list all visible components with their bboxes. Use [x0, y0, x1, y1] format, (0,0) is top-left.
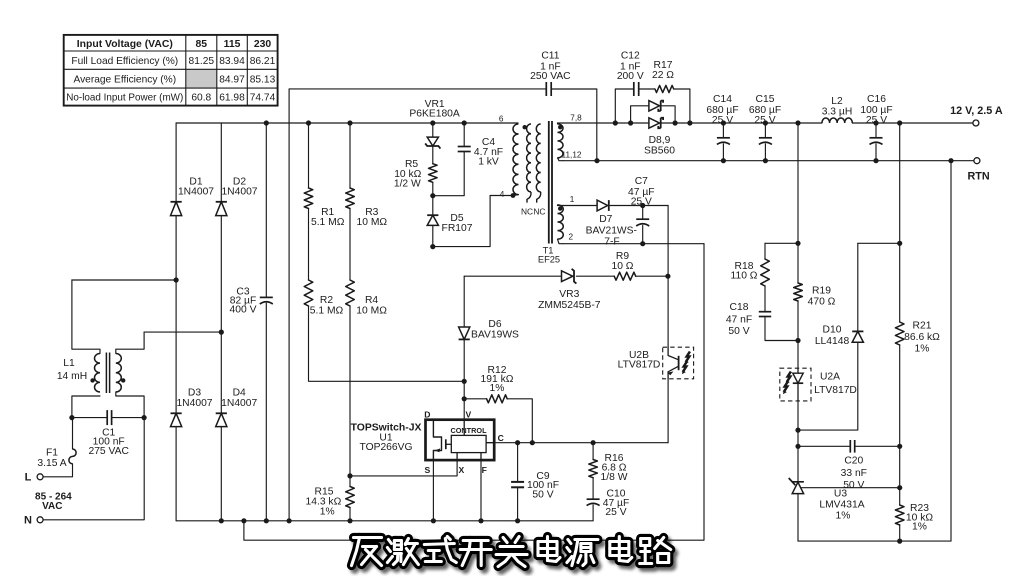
- resistor R15 14.3k: [306, 476, 355, 521]
- wire X pin: [350, 460, 457, 476]
- resistor R1 5.1M: [304, 123, 345, 280]
- svg-text:R2: R2: [320, 295, 333, 306]
- svg-text:7,8: 7,8: [570, 114, 582, 123]
- svg-text:400 V: 400 V: [230, 304, 257, 315]
- junction R12 left: [462, 396, 467, 401]
- junction D4 bus: [219, 518, 224, 523]
- svg-text:250 VAC: 250 VAC: [530, 71, 571, 82]
- resistor R4 10M: [346, 280, 387, 476]
- junction R21 top: [897, 120, 902, 125]
- capacitor C7: [628, 176, 655, 244]
- junction C11 RTN: [594, 158, 599, 163]
- svg-text:74.74: 74.74: [250, 92, 276, 103]
- svg-text:86.6 kΩ: 86.6 kΩ: [904, 332, 940, 343]
- terminal RTN: [967, 158, 989, 183]
- junction R12 right: [530, 440, 535, 445]
- svg-text:86.21: 86.21: [250, 56, 276, 67]
- svg-text:83.94: 83.94: [219, 56, 245, 67]
- svg-text:D3: D3: [188, 388, 201, 399]
- capacitor C9: [511, 443, 559, 521]
- svg-text:LL4148: LL4148: [815, 336, 850, 347]
- svg-text:1%: 1%: [320, 507, 335, 518]
- zener VR3 ZMM5245B-7: [538, 269, 601, 311]
- svg-text:47 nF: 47 nF: [726, 314, 752, 325]
- terminal 12V: [950, 105, 1003, 126]
- wire AC2 node: [144, 331, 221, 333]
- junction R23 bottom: [897, 539, 902, 544]
- svg-text:LMV431A: LMV431A: [819, 500, 864, 511]
- terminal N: [24, 515, 43, 527]
- title 反激式开关电源电路: [352, 537, 674, 571]
- transformer T1 primary winding: [513, 123, 519, 196]
- svg-text:C18: C18: [730, 302, 749, 313]
- svg-text:1%: 1%: [912, 522, 927, 533]
- svg-text:10 Ω: 10 Ω: [611, 261, 633, 272]
- svg-text:D8,9: D8,9: [649, 135, 671, 146]
- svg-text:C12: C12: [621, 51, 640, 62]
- svg-text:R1: R1: [321, 207, 334, 218]
- svg-text:1N4007: 1N4007: [178, 186, 214, 197]
- diode D5 FR107: [427, 196, 473, 247]
- junction R3 top: [347, 120, 352, 125]
- svg-text:1%: 1%: [836, 511, 851, 522]
- junction S bus: [431, 518, 436, 523]
- diode D2 1N4007: [216, 123, 258, 332]
- junction C16 top: [873, 120, 878, 125]
- svg-text:Input Voltage (VAC): Input Voltage (VAC): [77, 39, 173, 50]
- svg-text:L1: L1: [63, 358, 75, 369]
- resistor R9 10: [576, 251, 668, 280]
- wire AC1 node: [72, 279, 176, 281]
- junction RTN drop: [948, 158, 953, 163]
- svg-text:R21: R21: [913, 321, 932, 332]
- T1 core: [549, 121, 552, 244]
- svg-text:X: X: [459, 465, 465, 475]
- diode D7 BAV21WS-7-F: [563, 200, 668, 247]
- svg-text:50 V: 50 V: [532, 490, 553, 501]
- junction C20 right: [897, 444, 902, 449]
- T1 primary pin6 label: [499, 115, 504, 124]
- junction R18 tee: [795, 241, 800, 246]
- svg-text:60.8: 60.8: [191, 92, 211, 103]
- svg-text:SB560: SB560: [644, 145, 675, 156]
- junction V sense: [462, 379, 467, 384]
- T1 primary polarity dot: [523, 125, 527, 129]
- svg-text:F: F: [482, 465, 487, 475]
- wire bias return drop: [244, 244, 704, 541]
- efficiency table: [64, 35, 278, 106]
- svg-text:12 V, 2.5 A: 12 V, 2.5 A: [950, 105, 1003, 117]
- svg-text:BAV19WS: BAV19WS: [471, 330, 519, 341]
- capacitor C1: [72, 410, 144, 457]
- svg-text:14 mH: 14 mH: [57, 371, 87, 382]
- svg-text:C11: C11: [541, 51, 559, 62]
- svg-text:230: 230: [254, 39, 272, 50]
- resistor R21 86.6k: [895, 123, 940, 446]
- choke L1 polarity dots: [90, 378, 125, 382]
- svg-text:4: 4: [500, 190, 505, 199]
- diode D1 1N4007: [171, 123, 215, 280]
- svg-text:NC: NC: [521, 206, 533, 216]
- diode D10 LL4148: [798, 243, 900, 430]
- svg-text:470 Ω: 470 Ω: [808, 296, 836, 307]
- junction C15 top: [763, 120, 768, 125]
- optocoupler U2B LTV817D: [618, 347, 694, 379]
- svg-text:84.97: 84.97: [219, 74, 245, 85]
- svg-text:11,12: 11,12: [562, 150, 582, 159]
- junction R5 bottom: [430, 193, 435, 198]
- svg-text:C16: C16: [867, 94, 886, 105]
- label TOPSwitch-JX U1: [351, 423, 422, 454]
- label L1: [57, 358, 87, 382]
- junction C20 left: [795, 444, 800, 449]
- op-amp U1 TOPSwitch block: [426, 420, 495, 460]
- transformer T1 secondary winding: [558, 123, 564, 161]
- svg-text:F1: F1: [46, 448, 58, 459]
- label T1 EF25: [538, 245, 560, 264]
- svg-text:Average Efficiency (%): Average Efficiency (%): [73, 74, 176, 85]
- junction C15 bot: [763, 158, 768, 163]
- diode D9 SB560: [644, 118, 675, 157]
- svg-text:TOP266VG: TOP266VG: [359, 442, 412, 453]
- svg-text:P6KE180A: P6KE180A: [409, 108, 460, 119]
- junction X R15: [347, 473, 352, 478]
- wire R18 tee: [765, 242, 798, 244]
- junction C7 top: [640, 203, 645, 208]
- junction C16 bot: [873, 158, 878, 163]
- svg-text:275 VAC: 275 VAC: [88, 446, 129, 457]
- capacitor C4: [433, 123, 503, 196]
- svg-text:1/8 W: 1/8 W: [601, 472, 628, 483]
- svg-text:3.15 A: 3.15 A: [37, 458, 66, 469]
- wire N to C1 right: [43, 418, 144, 520]
- svg-text:NC: NC: [533, 206, 545, 216]
- capacitor C18: [726, 302, 798, 340]
- junction C3 top: [264, 120, 269, 125]
- svg-text:10 MΩ: 10 MΩ: [356, 305, 387, 316]
- wire U2B emitter: [667, 379, 669, 443]
- svg-text:7-F: 7-F: [604, 236, 619, 247]
- junction D8 right: [673, 120, 678, 125]
- wire L to fuse: [43, 464, 72, 477]
- wire D7 down to node: [667, 206, 669, 277]
- svg-text:61.98: 61.98: [219, 92, 245, 103]
- junction AC2: [219, 330, 224, 335]
- svg-text:85.13: 85.13: [250, 74, 276, 85]
- resistor R16 6.8: [589, 443, 628, 483]
- svg-text:D: D: [424, 409, 430, 419]
- svg-text:D4: D4: [233, 388, 246, 399]
- junction D5 bottom: [430, 244, 435, 249]
- svg-text:ZMM5245B-7: ZMM5245B-7: [538, 300, 601, 311]
- svg-text:81.25: 81.25: [189, 56, 215, 67]
- junction D8 left: [628, 120, 633, 125]
- terminal L: [25, 471, 43, 483]
- optocoupler U2A LTV817D: [780, 368, 857, 401]
- svg-text:3.3 µH: 3.3 µH: [822, 106, 853, 117]
- junction 12V sense: [795, 120, 800, 125]
- capacitor C20: [798, 440, 900, 491]
- T1 NC labels: [521, 206, 546, 216]
- svg-text:1N4007: 1N4007: [221, 398, 257, 409]
- svg-text:5.1 MΩ: 5.1 MΩ: [310, 305, 344, 316]
- svg-text:LTV817D: LTV817D: [618, 360, 661, 371]
- junction C7 bottom: [640, 241, 645, 246]
- wire C1 left up to L1: [72, 396, 100, 418]
- svg-text:No-load Input Power (mW): No-load Input Power (mW): [66, 92, 183, 103]
- wire bias node to VR3: [464, 275, 561, 277]
- svg-text:VAC: VAC: [42, 501, 62, 512]
- svg-text:R4: R4: [365, 295, 378, 306]
- svg-text:U2A: U2A: [820, 372, 840, 383]
- junction D10 top: [897, 241, 902, 246]
- junction C9 top: [515, 440, 520, 445]
- svg-text:1%: 1%: [490, 383, 505, 394]
- resistor R3 10M: [346, 123, 388, 280]
- resistor R19 470: [794, 243, 836, 368]
- choke L1 left winding: [72, 280, 100, 392]
- junction bias return: [241, 518, 246, 523]
- choke L1 right winding: [116, 332, 144, 418]
- diode D6 BAV19WS: [459, 276, 519, 381]
- svg-text:1N4007: 1N4007: [176, 398, 212, 409]
- wire RTN to fb ground: [798, 161, 951, 541]
- wire V line: [463, 381, 465, 419]
- svg-text:6: 6: [499, 115, 504, 124]
- junction C1 left: [69, 415, 74, 420]
- wire U2A cathode: [797, 401, 799, 446]
- T1 NC winding right: [536, 124, 540, 203]
- svg-text:R3: R3: [365, 207, 378, 218]
- junction AC1: [174, 277, 179, 282]
- B- bus wire: [176, 520, 593, 522]
- svg-text:LTV817D: LTV817D: [814, 385, 857, 396]
- T1 bias polarity dot: [558, 206, 562, 210]
- svg-text:1 kV: 1 kV: [478, 157, 499, 168]
- svg-text:33 nF: 33 nF: [841, 468, 867, 479]
- capacitor C14: [706, 94, 738, 161]
- junction U3 ref: [897, 485, 902, 490]
- B+ bus wire: [176, 122, 514, 124]
- svg-text:5.1 MΩ: 5.1 MΩ: [311, 217, 345, 228]
- T1 NC winding left: [527, 124, 531, 203]
- capacitor C15: [749, 94, 781, 161]
- diode D3 1N4007: [171, 280, 213, 521]
- svg-text:C14: C14: [713, 94, 732, 105]
- junction R16 top: [591, 440, 596, 445]
- junction R9 right: [665, 274, 670, 279]
- svg-text:1: 1: [570, 195, 575, 204]
- svg-text:10 MΩ: 10 MΩ: [357, 217, 388, 228]
- svg-text:V: V: [466, 409, 472, 419]
- junction C3 bottom: [264, 518, 269, 523]
- inductor L2 3.3uH: [822, 96, 853, 123]
- wire U2B collector: [667, 276, 669, 347]
- resistor R5 10k: [394, 159, 437, 196]
- fuse F1: [37, 448, 76, 470]
- svg-text:22 Ω: 22 Ω: [652, 70, 674, 81]
- choke L1 core: [106, 353, 109, 394]
- junction C9 bottom: [515, 518, 520, 523]
- U1 pin labels: [424, 409, 504, 475]
- secondary rail: [563, 122, 973, 124]
- svg-text:EF25: EF25: [538, 254, 560, 264]
- svg-text:Full Load Efficiency (%): Full Load Efficiency (%): [71, 56, 178, 67]
- label 85-264 VAC: [35, 491, 72, 511]
- wire U3 ref: [802, 487, 900, 489]
- svg-text:1%: 1%: [915, 344, 930, 355]
- svg-text:FR107: FR107: [442, 223, 473, 234]
- svg-text:CONTROL: CONTROL: [450, 426, 487, 435]
- capacitor C16: [860, 94, 892, 161]
- svg-text:C15: C15: [756, 94, 775, 105]
- snubber C12 R17: [615, 51, 690, 123]
- junction C18 R19: [795, 338, 800, 343]
- svg-text:C20: C20: [844, 455, 863, 466]
- T1 primary pin4 dot: [500, 190, 516, 199]
- junction C14 top: [721, 120, 726, 125]
- svg-text:BAV21WS-: BAV21WS-: [586, 225, 637, 236]
- svg-text:U3: U3: [834, 489, 847, 500]
- junction F bus: [478, 518, 483, 523]
- shunt regulator U3 LMV431A: [789, 446, 865, 541]
- capacitor C11: [530, 51, 597, 161]
- junction C1 right: [142, 415, 147, 420]
- svg-text:D6: D6: [488, 319, 501, 330]
- svg-text:C7: C7: [635, 176, 648, 187]
- svg-text:50 V: 50 V: [728, 326, 749, 337]
- wire pin4 to clamp: [433, 196, 513, 247]
- transformer T1 bias winding: [558, 205, 564, 244]
- diode D8 SB560: [631, 101, 676, 123]
- svg-text:1N4007: 1N4007: [221, 186, 257, 197]
- resistor R12 191k: [464, 365, 532, 443]
- resistor R18 110: [731, 243, 770, 311]
- junction C14 bot: [721, 158, 726, 163]
- junction R1 top: [306, 120, 311, 125]
- junction snubber left: [613, 120, 618, 125]
- capacitor C10: [587, 478, 630, 521]
- junction Y-leg bottom: [287, 518, 292, 523]
- junction VR1 top: [430, 120, 435, 125]
- svg-text:RTN: RTN: [967, 170, 989, 182]
- resistor R2 5.1M: [304, 280, 464, 381]
- svg-text:115: 115: [224, 39, 241, 50]
- T1 secondary polarity dot: [558, 125, 562, 129]
- svg-text:2: 2: [569, 232, 574, 241]
- svg-text:D10: D10: [823, 325, 842, 336]
- T1 pin labels 1 2: [569, 195, 575, 242]
- wire Y-cap leg: [289, 89, 546, 521]
- svg-text:1/2 W: 1/2 W: [394, 178, 421, 189]
- junction R15 bottom: [347, 518, 352, 523]
- svg-text:25 V: 25 V: [605, 507, 626, 518]
- resistor R23 10k: [895, 446, 933, 541]
- wire fuse to C1 node: [72, 418, 74, 449]
- diode D4 1N4007: [216, 332, 258, 521]
- T1 pin labels 7,8 11,12: [562, 114, 583, 160]
- wire F pin: [480, 460, 482, 521]
- svg-text:85: 85: [196, 39, 208, 50]
- svg-text:200 V: 200 V: [617, 71, 644, 82]
- zener VR1 P6KE180A: [409, 99, 460, 164]
- svg-text:L: L: [25, 471, 32, 483]
- junction D10 bottom: [795, 428, 800, 433]
- wire 12V sense drop: [797, 123, 799, 243]
- svg-text:110 Ω: 110 Ω: [731, 271, 758, 282]
- junction C4 top: [462, 120, 467, 125]
- svg-text:N: N: [24, 515, 32, 527]
- wire C pin: [494, 442, 668, 444]
- svg-text:S: S: [425, 465, 431, 475]
- wire S pin: [432, 460, 434, 521]
- RTN rail: [563, 160, 974, 162]
- wire pin2 rail: [563, 243, 704, 245]
- svg-text:D7: D7: [599, 214, 612, 225]
- junction snubber right: [687, 120, 692, 125]
- svg-text:R19: R19: [812, 285, 831, 296]
- svg-text:VR3: VR3: [559, 289, 579, 300]
- svg-text:C: C: [498, 433, 504, 443]
- capacitor C3: [230, 123, 273, 521]
